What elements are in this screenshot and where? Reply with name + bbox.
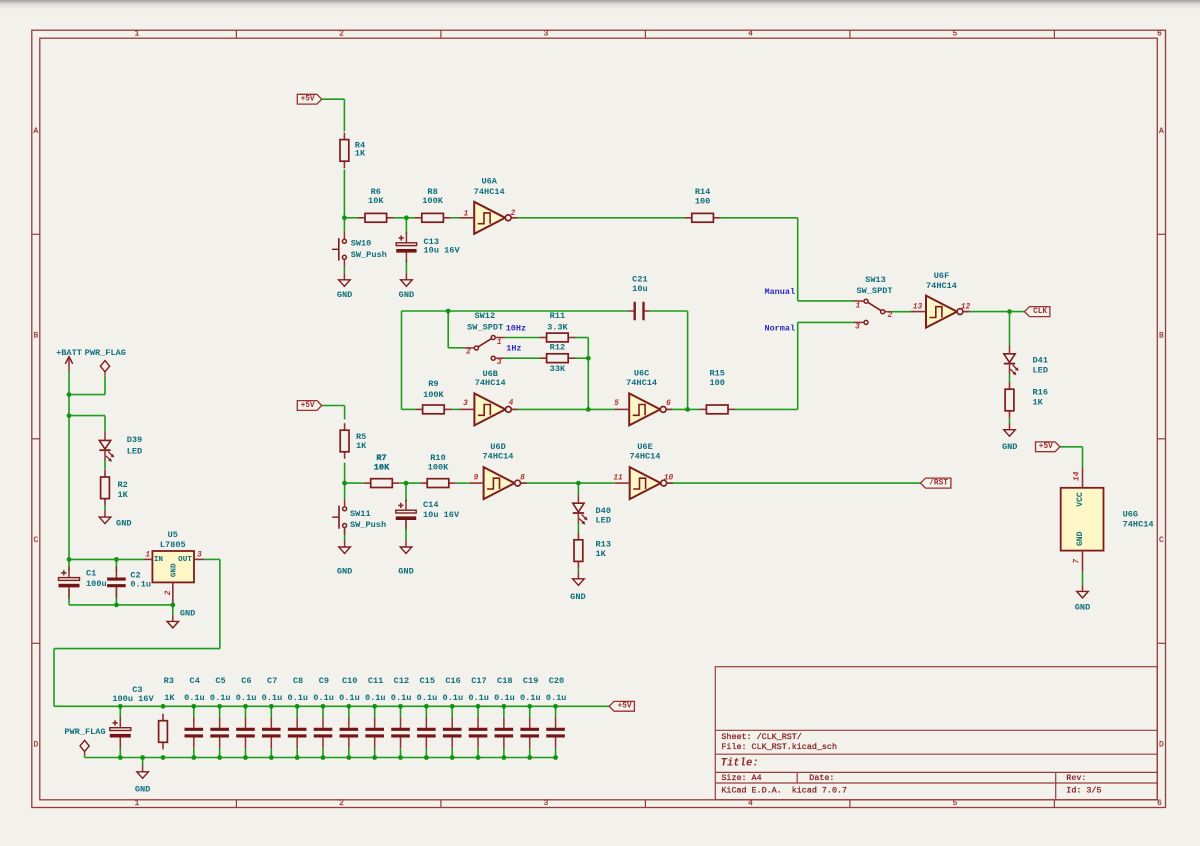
svg-text:C11: C11 [368,676,383,686]
svg-text:A: A [1159,128,1164,136]
svg-text:SW12: SW12 [474,311,495,321]
svg-text:1: 1 [497,339,502,347]
svg-text:C1: C1 [86,569,96,579]
svg-text:U6D: U6D [490,442,505,452]
svg-text:0.1u: 0.1u [210,693,231,703]
svg-text:GND: GND [337,567,352,577]
svg-text:+5V: +5V [301,402,315,410]
svg-text:74HC14: 74HC14 [483,451,514,461]
svg-text:74HC14: 74HC14 [475,378,506,388]
svg-text:C: C [1159,537,1164,545]
svg-text:R11: R11 [550,311,565,321]
svg-text:4: 4 [509,400,514,408]
svg-text:VCC: VCC [1076,492,1085,507]
svg-text:C5: C5 [215,676,225,686]
svg-text:10: 10 [664,474,674,482]
svg-text:2: 2 [339,31,344,39]
svg-text:U6A: U6A [481,177,497,187]
svg-text:GND: GND [180,609,195,619]
svg-text:D39: D39 [127,435,142,445]
svg-text:OUT: OUT [178,556,192,564]
svg-text:1: 1 [464,210,469,218]
svg-text:C18: C18 [497,676,512,686]
svg-text:3: 3 [544,800,549,808]
svg-text:100u 16V: 100u 16V [112,694,154,704]
svg-text:74HC14: 74HC14 [1123,519,1154,529]
svg-text:Rev:: Rev: [1066,773,1086,783]
svg-text:0.1u: 0.1u [468,693,489,703]
svg-text:0.1u: 0.1u [365,693,386,703]
svg-text:GND: GND [1002,442,1017,452]
svg-text:GND: GND [570,592,585,602]
svg-text:Id: 3/5: Id: 3/5 [1066,786,1101,796]
svg-text:IN: IN [154,556,164,564]
svg-text:R3: R3 [164,676,174,686]
svg-text:LED: LED [127,447,142,457]
svg-text:3.3K: 3.3K [547,322,568,332]
svg-text:U6F: U6F [934,271,949,281]
svg-text:C9: C9 [319,676,329,686]
svg-text:C19: C19 [523,676,538,686]
svg-text:3: 3 [544,31,549,39]
svg-text:A: A [33,128,38,136]
svg-text:1: 1 [145,551,150,559]
svg-text:GND: GND [135,785,150,795]
svg-text:C21: C21 [632,275,647,285]
svg-text:LED: LED [1033,366,1048,376]
svg-text:U6G: U6G [1123,510,1138,520]
svg-text:9: 9 [474,474,479,482]
svg-text:File: CLK_RST.kicad_sch: File: CLK_RST.kicad_sch [721,742,837,752]
svg-text:Size: A4: Size: A4 [721,773,761,783]
svg-text:74HC14: 74HC14 [630,451,661,461]
svg-text:+5V: +5V [1039,443,1053,451]
svg-text:R15: R15 [709,368,724,378]
svg-text:B: B [33,333,38,341]
svg-text:7: 7 [1073,559,1081,564]
svg-text:D40: D40 [596,506,611,516]
svg-text:CLK: CLK [1033,308,1047,316]
svg-text:6: 6 [1157,800,1162,808]
svg-text:1K: 1K [355,149,366,159]
svg-text:SW_SPDT: SW_SPDT [856,286,892,296]
svg-text:100K: 100K [422,196,443,206]
svg-text:SW_Push: SW_Push [350,520,386,530]
svg-text:1K: 1K [356,441,367,451]
svg-text:6: 6 [666,400,671,408]
svg-text:SW_Push: SW_Push [351,250,387,260]
svg-text:14: 14 [1073,471,1081,481]
svg-text:C14: C14 [423,500,438,510]
svg-text:10u 16V: 10u 16V [424,246,461,256]
svg-text:Title:: Title: [721,757,759,769]
svg-text:1K: 1K [164,693,175,703]
svg-text:PWR_FLAG: PWR_FLAG [64,727,105,737]
svg-text:100u: 100u [86,579,107,589]
svg-text:33K: 33K [550,364,566,374]
svg-text:0.1u: 0.1u [236,693,257,703]
svg-text:1K: 1K [596,549,607,559]
svg-text:C20: C20 [549,676,564,686]
svg-text:10K: 10K [374,463,390,473]
svg-text:0.1u: 0.1u [391,693,412,703]
svg-text:GND: GND [1076,531,1085,546]
svg-text:100K: 100K [428,463,449,473]
svg-text:SW10: SW10 [351,239,372,249]
svg-text:0.1u: 0.1u [130,580,151,590]
svg-text:C: C [33,537,38,545]
svg-text:GND: GND [398,567,413,577]
svg-text:0.1u: 0.1u [287,693,308,703]
svg-text:11: 11 [613,474,623,482]
svg-text:Normal: Normal [764,324,795,334]
svg-text:0.1u: 0.1u [494,693,515,703]
svg-text:2: 2 [165,590,173,595]
svg-text:74HC14: 74HC14 [626,378,657,388]
svg-text:GND: GND [116,519,131,529]
svg-text:10u: 10u [632,284,647,294]
svg-text:C4: C4 [190,676,200,686]
svg-text:5: 5 [953,800,958,808]
svg-text:3: 3 [855,324,860,332]
svg-text:KiCad E.D.A. kicad 7.0.7: KiCad E.D.A. kicad 7.0.7 [721,786,847,796]
svg-text:/RST: /RST [929,480,948,488]
svg-text:1: 1 [135,31,140,39]
svg-text:C8: C8 [293,676,303,686]
svg-text:13: 13 [913,304,923,312]
svg-text:0.1u: 0.1u [520,693,541,703]
svg-text:0.1u: 0.1u [442,693,463,703]
svg-text:C16: C16 [445,676,460,686]
svg-text:0.1u: 0.1u [313,693,334,703]
svg-text:U5: U5 [168,530,178,540]
svg-text:Manual: Manual [764,287,795,297]
svg-text:1Hz: 1Hz [506,344,521,354]
svg-text:+5V: +5V [301,96,315,104]
svg-text:12: 12 [961,304,971,312]
svg-text:C17: C17 [471,676,486,686]
svg-text:R16: R16 [1033,388,1048,398]
svg-text:100: 100 [709,378,724,388]
svg-text:GND: GND [1075,602,1090,612]
svg-text:2: 2 [888,312,893,320]
svg-text:GND: GND [337,290,352,300]
svg-text:6: 6 [1157,31,1162,39]
svg-text:1K: 1K [1033,398,1044,408]
svg-text:1K: 1K [118,490,129,500]
svg-text:3: 3 [497,359,502,367]
svg-text:2: 2 [466,349,471,357]
svg-text:10K: 10K [368,196,384,206]
svg-text:74HC14: 74HC14 [926,281,957,291]
svg-text:+5V: +5V [618,703,632,711]
svg-text:0.1u: 0.1u [417,693,438,703]
svg-text:SW13: SW13 [865,275,886,285]
svg-text:0.1u: 0.1u [546,693,567,703]
svg-text:SW_SPDT: SW_SPDT [467,322,503,332]
svg-text:3: 3 [463,400,468,408]
svg-text:100: 100 [695,196,710,206]
svg-text:R12: R12 [550,343,565,353]
svg-text:10Hz: 10Hz [506,324,526,334]
svg-text:5: 5 [953,31,958,39]
svg-text:GND: GND [171,563,179,577]
svg-text:0.1u: 0.1u [339,693,360,703]
svg-text:D: D [33,742,38,750]
svg-text:0.1u: 0.1u [262,693,283,703]
svg-text:C6: C6 [241,676,251,686]
svg-text:SW11: SW11 [350,509,371,519]
svg-text:PWR_FLAG: PWR_FLAG [85,348,126,358]
svg-text:5: 5 [614,400,619,408]
svg-text:3: 3 [197,551,202,559]
svg-text:R9: R9 [428,379,438,389]
svg-text:Sheet: /CLK_RST/: Sheet: /CLK_RST/ [721,732,801,742]
svg-text:2: 2 [511,210,516,218]
svg-text:C7: C7 [267,676,277,686]
svg-text:C10: C10 [342,676,357,686]
svg-text:4: 4 [748,800,753,808]
svg-text:GND: GND [399,290,414,300]
svg-text:C12: C12 [394,676,409,686]
svg-text:Date:: Date: [809,773,834,783]
svg-text:U6C: U6C [634,368,649,378]
svg-text:+BATT: +BATT [56,348,82,358]
svg-text:L7805: L7805 [160,540,186,550]
svg-text:2: 2 [339,800,344,808]
svg-text:10u 16V: 10u 16V [423,510,460,520]
svg-text:B: B [1159,333,1164,341]
svg-text:4: 4 [748,31,753,39]
svg-text:1: 1 [856,302,861,310]
svg-text:1: 1 [135,800,140,808]
svg-text:D: D [1159,742,1164,750]
svg-text:74HC14: 74HC14 [474,187,505,197]
svg-text:U6E: U6E [637,442,652,452]
svg-text:0.1u: 0.1u [184,693,205,703]
svg-text:D41: D41 [1033,356,1048,366]
svg-text:R2: R2 [118,480,128,490]
svg-text:100K: 100K [423,390,444,400]
svg-text:LED: LED [596,516,611,526]
svg-text:8: 8 [520,474,525,482]
svg-text:C15: C15 [420,676,435,686]
